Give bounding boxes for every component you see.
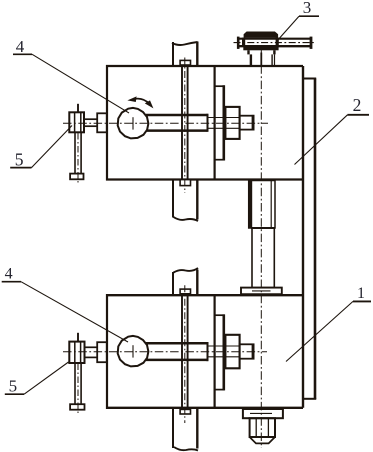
knob narrow stem xyxy=(251,53,275,67)
svg-text:1: 1 xyxy=(357,285,365,302)
svg-text:3: 3 xyxy=(303,0,312,17)
svg-text:4: 4 xyxy=(16,37,25,56)
right thin plate xyxy=(303,79,316,400)
screw bottom flange xyxy=(241,288,282,295)
top small nut xyxy=(240,115,254,131)
knob bottom band xyxy=(243,47,278,51)
T-handle bar (item 3) xyxy=(234,37,317,49)
exposed screw lower section xyxy=(252,228,274,288)
bottom main horizontal centerline xyxy=(63,351,267,353)
pipe segment below bottom block xyxy=(173,408,198,451)
top left bolt below bracket xyxy=(70,132,83,184)
knob black cap xyxy=(244,32,279,38)
svg-text:5: 5 xyxy=(9,376,18,395)
svg-text:2: 2 xyxy=(353,95,362,115)
pipe upper segment above top block xyxy=(172,42,198,67)
top left flange on block xyxy=(97,113,107,132)
bottom cam circle (item 4) xyxy=(118,336,149,367)
bottom vertical strip (clamp plate) xyxy=(180,285,190,423)
top left screw between bracket and flange xyxy=(84,119,97,126)
bottom inner flange beside divider xyxy=(215,314,225,390)
label 2 xyxy=(295,95,370,165)
top left bracket (item 5 guide) xyxy=(69,104,84,133)
top vertical strip (clamp plate) xyxy=(180,58,190,194)
bottom bolt flange under block xyxy=(243,409,283,418)
bottom left screw between bracket and flange xyxy=(84,347,97,357)
top cam circle (item 4) xyxy=(118,108,149,138)
bottom bolt body xyxy=(250,418,275,437)
label 1 xyxy=(286,285,371,362)
top big nut xyxy=(225,107,239,139)
bottom left bolt below bracket xyxy=(70,363,84,415)
top main horizontal centerline xyxy=(63,122,268,124)
label 5 bottom xyxy=(5,362,69,395)
bottom horizontal rod from cam xyxy=(146,342,240,361)
rotation arc arrow above top circle xyxy=(127,96,153,108)
exposed screw between blocks, upper section xyxy=(249,181,275,229)
bottom bolt chamfered tip xyxy=(250,437,275,443)
label 4 top xyxy=(13,37,129,113)
svg-text:4: 4 xyxy=(5,266,13,283)
right vertical edge line (both blocks + plate left edge) xyxy=(302,66,304,408)
top inner flange beside divider xyxy=(215,85,225,160)
svg-text:5: 5 xyxy=(15,150,24,170)
bottom big nut xyxy=(225,335,239,369)
label 4 bottom xyxy=(2,266,128,342)
bottom clamp block outline xyxy=(106,294,303,409)
top clamp block outline xyxy=(106,65,303,181)
bottom left flange on block xyxy=(97,342,107,362)
knob wide stem xyxy=(249,50,275,54)
pipe segment between blocks (lower, with break) xyxy=(173,268,198,295)
bottom small nut xyxy=(240,344,254,360)
label 3 xyxy=(277,0,320,41)
pipe segment between blocks (upper, with break) xyxy=(173,180,198,221)
vertical screw centerline xyxy=(260,50,262,448)
label 5 top xyxy=(10,126,72,170)
knob body side bars xyxy=(242,38,245,47)
bottom left bracket (item 5 guide) xyxy=(69,333,84,363)
top horizontal rod from cam xyxy=(146,114,240,132)
